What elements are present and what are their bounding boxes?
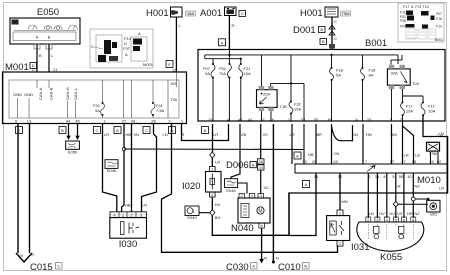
wire LR	[291, 124, 293, 164]
svg-text:E050: E050	[68, 150, 78, 155]
svg-text:B: B	[304, 264, 307, 269]
svg-text:N: N	[276, 256, 279, 261]
B001 interior	[203, 50, 436, 123]
gauge icons	[14, 25, 78, 31]
svg-text:02: 02	[437, 159, 442, 164]
arrow 44	[68, 124, 70, 136]
svg-text:D: D	[32, 63, 35, 68]
svg-text:B001: B001	[435, 38, 443, 42]
svg-text:17: 17	[390, 159, 395, 164]
svg-text:44: 44	[248, 117, 253, 122]
svg-text:B: B	[322, 39, 325, 44]
svg-text:HR: HR	[407, 211, 413, 216]
svg-text:K055: K055	[380, 252, 402, 263]
main wire to C010	[272, 124, 274, 262]
fuse F51	[219, 63, 232, 121]
svg-text:I020: I020	[182, 181, 201, 192]
svg-text:A001: A001	[200, 8, 222, 19]
svg-text:B: B	[61, 128, 64, 133]
svg-text:ZB: ZB	[241, 132, 246, 137]
svg-text:DB: DB	[308, 152, 314, 157]
svg-text:LN: LN	[163, 132, 168, 137]
svg-text:I031: I031	[351, 242, 370, 253]
internal wires	[18, 72, 177, 118]
connector C	[94, 127, 101, 134]
svg-text:M001: M001	[143, 62, 154, 67]
fuse F21	[239, 63, 251, 121]
pin boxes	[34, 44, 40, 49]
svg-text:F37: F37	[123, 46, 131, 51]
svg-text:T04: T04	[412, 81, 420, 86]
svg-text:B: B	[116, 128, 119, 133]
wire MN	[339, 173, 341, 210]
svg-text:10A: 10A	[428, 109, 435, 114]
fuse F16	[361, 67, 377, 121]
wire BR	[315, 124, 317, 164]
instrument cluster E050	[10, 7, 80, 44]
svg-text:B: B	[48, 35, 51, 40]
svg-text:NZ: NZ	[414, 211, 420, 216]
wire H001	[175, 17, 177, 72]
svg-text:15A: 15A	[294, 107, 301, 112]
svg-text:CN: CN	[334, 151, 340, 156]
heater fan resistor N040	[226, 124, 309, 273]
svg-text:R: R	[232, 23, 235, 28]
wire DM	[391, 124, 393, 164]
junction to X-box	[431, 152, 439, 164]
svg-text:LN: LN	[439, 131, 444, 136]
fuse F18	[330, 67, 344, 121]
svg-text:33: 33	[301, 117, 306, 122]
svg-text:B: B	[39, 53, 42, 58]
svg-text:C: C	[334, 19, 337, 24]
six wires	[368, 173, 413, 218]
svg-text:M010: M010	[417, 175, 441, 186]
svg-text:C: C	[145, 128, 148, 133]
bar	[295, 164, 447, 173]
fuse F31	[93, 80, 104, 118]
svg-text:B: B	[204, 128, 207, 133]
svg-text:46: 46	[270, 117, 275, 122]
svg-text:C: C	[96, 128, 99, 133]
svg-text:20A: 20A	[263, 92, 270, 97]
svg-text:VC: VC	[264, 185, 270, 190]
svg-text:30A: 30A	[391, 71, 398, 76]
svg-text:CAN-A: CAN-A	[38, 87, 43, 100]
svg-text:H001: H001	[300, 8, 323, 19]
svg-text:CAN-H: CAN-H	[65, 87, 70, 100]
connector bar M010	[294, 152, 447, 191]
svg-text:BR: BR	[317, 132, 323, 137]
svg-text:45: 45	[75, 119, 80, 124]
battery A001	[200, 7, 246, 50]
connector E	[166, 61, 173, 68]
svg-text:9A: 9A	[205, 71, 210, 76]
svg-text:10A: 10A	[406, 109, 413, 114]
wires M001 to I030	[103, 124, 157, 212]
connector C2	[143, 127, 150, 134]
svg-text:A: A	[36, 35, 39, 40]
ZB wire to E046	[231, 124, 240, 179]
svg-text:A: A	[252, 264, 255, 269]
junction diamond 2	[210, 210, 215, 216]
svg-text:F16: F16	[436, 17, 442, 21]
boxed letter row under M001	[16, 127, 443, 139]
fuse holder I020	[182, 167, 289, 236]
svg-text:44: 44	[66, 119, 71, 124]
svg-text:F07: F07	[436, 12, 442, 16]
svg-text:CAN-B: CAN-B	[49, 87, 54, 100]
svg-text:8A: 8A	[369, 73, 374, 78]
svg-text:F17 A F21 T10: F17 A F21 T10	[403, 5, 429, 9]
svg-text:37: 37	[260, 117, 265, 122]
svg-text:49: 49	[429, 159, 434, 164]
svg-text:T30: T30	[170, 97, 178, 102]
svg-text:HV: HV	[389, 211, 395, 216]
sensor S002	[427, 200, 440, 212]
svg-text:A: A	[125, 52, 128, 57]
bus wires	[205, 50, 423, 122]
svg-text:24: 24	[258, 165, 263, 170]
B001 bottom pin numbers	[208, 117, 403, 122]
svg-text:E: E	[168, 62, 171, 67]
svg-text:13: 13	[27, 119, 32, 124]
inner strip	[13, 32, 76, 41]
svg-text:A: A	[138, 31, 141, 36]
svg-text:5A: 5A	[336, 73, 341, 78]
top pin numbers	[302, 159, 442, 164]
svg-text:S7B8: S7B8	[429, 152, 437, 156]
svg-text:E046: E046	[226, 188, 236, 193]
svg-text:LR: LR	[439, 186, 444, 191]
svg-text:48: 48	[412, 159, 417, 164]
connector A	[303, 181, 310, 188]
inset detail box M001 connectors	[90, 29, 154, 68]
svg-text:E046: E046	[107, 168, 117, 173]
svg-text:VN: VN	[134, 132, 140, 137]
wire 27 to I030 pin1	[122, 124, 124, 212]
connector B3	[202, 127, 209, 134]
svg-text:C: C	[57, 264, 60, 269]
wire down then right	[212, 193, 289, 236]
wires E050 to M001	[32, 44, 59, 72]
svg-text:HN: HN	[366, 132, 372, 137]
svg-text:F10: F10	[436, 25, 442, 29]
svg-text:C: C	[91, 44, 94, 49]
svg-text:F11: F11	[400, 11, 406, 15]
wire 34 to I030 pin2	[131, 124, 133, 212]
wire GND 1	[17, 124, 19, 253]
M001	[3, 62, 187, 124]
svg-text:LR: LR	[215, 160, 220, 165]
svg-text:50: 50	[399, 174, 404, 179]
svg-text:27: 27	[122, 119, 127, 124]
box E050	[10, 18, 80, 44]
svg-text:F05: F05	[400, 19, 406, 23]
svg-text:33: 33	[302, 159, 307, 164]
svg-text:LR: LR	[104, 132, 109, 137]
connector E	[16, 127, 23, 134]
routed wire loop	[289, 137, 448, 236]
body	[110, 218, 147, 239]
wire HN	[362, 124, 364, 164]
svg-text:33: 33	[367, 117, 372, 122]
svg-text:BG: BG	[215, 215, 221, 220]
body outline	[357, 222, 424, 251]
blower switch I030	[110, 212, 147, 250]
svg-text:VC: VC	[263, 132, 269, 137]
relay T04	[387, 65, 419, 121]
svg-text:M: M	[258, 209, 262, 215]
wire L	[48, 44, 50, 72]
svg-text:LB: LB	[415, 153, 420, 158]
splice E046	[225, 179, 248, 194]
svg-text:GND GND: GND GND	[13, 92, 33, 97]
svg-text:15: 15	[333, 159, 338, 164]
junction diamond LR	[393, 201, 398, 207]
wire to C030	[261, 228, 263, 259]
pin boxes	[366, 217, 416, 222]
svg-text:C030: C030	[226, 262, 249, 273]
svg-text:HV: HV	[379, 211, 385, 216]
connector A	[219, 39, 226, 46]
relay T20	[257, 86, 288, 121]
svg-text:NZ: NZ	[415, 184, 421, 189]
LN wire to I031	[162, 124, 338, 252]
svg-text:7.5A: 7.5A	[156, 108, 165, 113]
svg-text:70A: 70A	[219, 71, 226, 76]
svg-text:HB: HB	[126, 132, 132, 137]
svg-text:D001: D001	[293, 25, 316, 36]
svg-text:41: 41	[383, 174, 388, 179]
svg-text:C: C	[334, 36, 337, 41]
VC wire through D006	[260, 124, 262, 159]
svg-text:H001: H001	[146, 8, 169, 19]
svg-text:28: 28	[151, 119, 156, 124]
junction node	[122, 147, 125, 150]
internal elements	[374, 226, 379, 233]
svg-text:20: 20	[208, 117, 213, 122]
connector A	[169, 127, 176, 134]
svg-text:10: 10	[407, 174, 412, 179]
wire DN diagonal	[331, 124, 333, 164]
svg-text:34: 34	[131, 119, 136, 124]
svg-text:15A: 15A	[187, 11, 194, 16]
splice symbol E046 left	[105, 160, 118, 173]
svg-text:T1B: T1B	[280, 104, 288, 109]
svg-text:A: A	[252, 162, 255, 167]
svg-text:T5M: T5M	[342, 11, 350, 16]
wire GND 2	[29, 124, 31, 253]
svg-text:A: A	[305, 182, 308, 187]
svg-text:C010: C010	[278, 262, 301, 273]
connector B	[59, 127, 66, 134]
svg-text:N: N	[264, 256, 267, 261]
ground module E040	[185, 206, 199, 220]
svg-text:E040: E040	[187, 215, 197, 220]
B001 body computer	[198, 38, 445, 121]
wire color labels	[369, 211, 420, 216]
wire LB diagonal	[403, 126, 414, 164]
C015 chevron	[16, 253, 32, 262]
svg-text:LR: LR	[404, 153, 409, 158]
svg-text:30: 30	[314, 117, 319, 122]
wire A001	[228, 16, 230, 50]
svg-text:D006: D006	[226, 160, 249, 171]
pin row	[367, 218, 415, 223]
connector B2	[114, 127, 121, 134]
fuse panel inset B001	[398, 3, 444, 42]
svg-text:LR: LR	[142, 203, 147, 208]
relay I031	[327, 173, 370, 253]
svg-text:B: B	[320, 27, 323, 32]
horn H001	[146, 7, 196, 73]
wires to C015	[16, 124, 62, 273]
fuse F41	[151, 80, 165, 118]
feed bracket to I020	[182, 124, 229, 167]
connector strip	[110, 212, 147, 218]
fuse F17	[401, 101, 414, 121]
svg-text:S002: S002	[430, 213, 438, 217]
svg-text:HB: HB	[125, 203, 131, 208]
wires B001 to M010	[292, 121, 414, 164]
svg-text:LB: LB	[369, 211, 374, 216]
fuse F07	[203, 63, 215, 121]
wire 28 to I030 pin3	[142, 124, 157, 212]
svg-text:15A: 15A	[244, 71, 251, 76]
wire LR2	[402, 121, 404, 164]
wire LN right edge	[423, 116, 448, 193]
CN bus wire	[124, 124, 339, 164]
svg-text:N040: N040	[231, 223, 254, 234]
bottom pin numbers	[314, 174, 413, 179]
wire H001-2	[331, 17, 333, 50]
svg-text:CAN-L: CAN-L	[73, 87, 78, 100]
svg-text:HV: HV	[215, 202, 221, 207]
branches to S002	[398, 203, 428, 205]
svg-text:M001: M001	[5, 62, 29, 73]
svg-text:F01: F01	[400, 25, 406, 29]
svg-text:43: 43	[238, 117, 243, 122]
E050 repeated-component symbol	[66, 124, 80, 155]
svg-text:09: 09	[312, 159, 317, 164]
svg-text:A: A	[296, 154, 299, 159]
wire LR to I030 pin4	[103, 124, 117, 212]
connector A upper	[294, 152, 301, 159]
junction circle NZ	[411, 197, 415, 201]
svg-text:A: A	[221, 40, 224, 45]
other system X-box	[427, 142, 440, 156]
svg-text:R: R	[31, 252, 34, 257]
branch to E040	[199, 212, 210, 214]
fuse F11	[421, 101, 436, 116]
svg-text:60: 60	[328, 117, 333, 122]
relay box H001 (second)	[293, 7, 351, 50]
svg-text:MN: MN	[342, 199, 348, 204]
svg-text:N: N	[20, 253, 23, 258]
svg-text:C: C	[241, 11, 244, 16]
heater control D006	[226, 124, 269, 194]
fuse F32	[289, 101, 302, 122]
svg-text:21: 21	[53, 67, 58, 72]
arrow 45	[77, 124, 79, 136]
svg-text:LR: LR	[213, 132, 218, 137]
bottom pin numbers	[15, 119, 184, 124]
svg-text:LR: LR	[397, 211, 402, 216]
wire from pin 36	[289, 137, 448, 236]
heater group K055	[357, 173, 440, 263]
M001 interior	[13, 72, 184, 124]
svg-text:I030: I030	[119, 239, 138, 250]
svg-text:C015: C015	[30, 262, 53, 273]
svg-text:E050: E050	[37, 7, 59, 18]
svg-text:B001: B001	[365, 38, 387, 49]
junction diamond	[210, 152, 215, 158]
svg-text:5A: 5A	[95, 108, 100, 113]
svg-text:47: 47	[401, 159, 406, 164]
svg-text:26: 26	[258, 159, 263, 164]
wire B	[36, 44, 38, 72]
